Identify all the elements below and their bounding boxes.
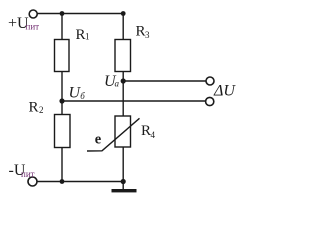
node junction dot top of R1 branch bbox=[60, 11, 65, 16]
output terminal lower bbox=[206, 97, 214, 105]
node junction dot ground bbox=[121, 179, 126, 184]
svg-text:ΔU: ΔU bbox=[213, 83, 236, 100]
wire upper output from node Ua to terminal bbox=[123, 80, 206, 82]
resistor R2 bbox=[29, 100, 71, 148]
wire right vertical branch bbox=[122, 14, 124, 183]
output terminal upper bbox=[206, 77, 214, 85]
svg-text:R: R bbox=[141, 123, 151, 139]
wire top horizontal from +U terminal to R3 branch bbox=[37, 13, 125, 15]
svg-text:R: R bbox=[76, 27, 86, 43]
node Ua bbox=[104, 73, 126, 90]
resistor R3 bbox=[115, 24, 150, 72]
ground bbox=[112, 182, 137, 193]
wire left vertical branch bbox=[61, 14, 63, 183]
svg-text:3: 3 bbox=[145, 30, 150, 40]
svg-text:2: 2 bbox=[39, 105, 44, 115]
wire lower output from node Uб to terminal bbox=[62, 100, 206, 102]
thermistor R4 bbox=[87, 116, 156, 151]
svg-text:e: e bbox=[95, 132, 102, 148]
wire bottom horizontal from -U terminal to ground node bbox=[37, 181, 125, 183]
svg-text:a: a bbox=[115, 79, 120, 89]
svg-text:б: б bbox=[80, 91, 85, 101]
svg-text:1: 1 bbox=[85, 32, 90, 42]
svg-text:4: 4 bbox=[151, 130, 156, 140]
svg-text:R: R bbox=[29, 100, 39, 116]
terminal +Uпит bbox=[8, 10, 39, 32]
svg-text:пит: пит bbox=[21, 169, 35, 179]
terminal -Uпит bbox=[9, 162, 38, 186]
node junction dot top of R3 branch bbox=[121, 11, 126, 16]
node Uб bbox=[59, 85, 85, 104]
node junction dot left bottom bbox=[60, 179, 65, 184]
resistor R1 bbox=[55, 27, 90, 72]
svg-text:R: R bbox=[136, 24, 146, 40]
svg-text:пит: пит bbox=[26, 22, 40, 32]
